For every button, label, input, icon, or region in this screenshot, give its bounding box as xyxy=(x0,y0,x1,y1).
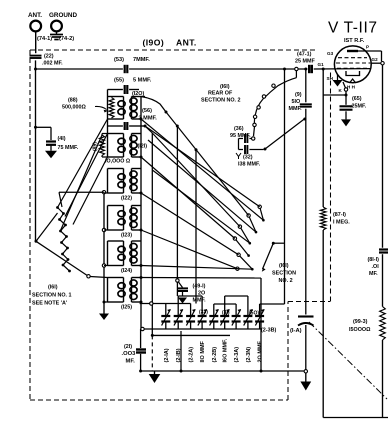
svg-text:G2: G2 xyxy=(372,57,379,62)
svg-text:G3: G3 xyxy=(327,51,334,56)
svg-text:.OI: .OI xyxy=(372,264,380,270)
svg-text:(2-IA): (2-IA) xyxy=(164,348,170,362)
svg-text:25 MMF: 25 MMF xyxy=(295,59,315,65)
svg-text:(I24): (I24) xyxy=(121,268,132,274)
svg-text:MMF.: MMF. xyxy=(193,298,207,304)
svg-text:IO,OOO Ω: IO,OOO Ω xyxy=(105,159,131,165)
svg-text:REAR OF: REAR OF xyxy=(208,91,233,97)
svg-text:95 MMF.: 95 MMF. xyxy=(230,133,251,139)
svg-text:I38 MMF.: I38 MMF. xyxy=(238,162,261,168)
svg-text:ANT.: ANT. xyxy=(28,12,42,19)
svg-text:(2-2A): (2-2A) xyxy=(189,347,195,363)
svg-text:(2-IB): (2-IB) xyxy=(176,348,182,362)
svg-text:SEE NOTE 'A': SEE NOTE 'A' xyxy=(32,301,67,307)
svg-text:(2-3A): (2-3A) xyxy=(234,347,240,363)
svg-text:(8I-I): (8I-I) xyxy=(368,257,380,263)
svg-text:5IO: 5IO xyxy=(292,99,301,105)
svg-text:500,000Ω: 500,000Ω xyxy=(62,105,86,111)
svg-text:IST R.F.: IST R.F. xyxy=(344,38,365,44)
svg-text:(65): (65) xyxy=(352,96,362,102)
svg-text:7MMF.: 7MMF. xyxy=(133,57,150,63)
svg-text:V T-II7: V T-II7 xyxy=(328,20,378,37)
svg-text:.25MF.: .25MF. xyxy=(350,104,367,110)
svg-text:.OO3: .OO3 xyxy=(122,351,137,357)
svg-text:SECTION NO. 2: SECTION NO. 2 xyxy=(201,98,241,104)
svg-text:2O: 2O xyxy=(198,291,205,297)
svg-text:(4I): (4I) xyxy=(58,136,66,142)
svg-text:SH: SH xyxy=(327,76,334,81)
svg-text:(49-I): (49-I) xyxy=(193,284,206,290)
svg-text:(47-1): (47-1) xyxy=(297,52,312,58)
svg-text:ANT.: ANT. xyxy=(176,38,197,48)
svg-text:5 MMF.: 5 MMF. xyxy=(133,78,152,84)
svg-text:(74-2): (74-2) xyxy=(59,36,74,42)
svg-text:(53): (53) xyxy=(114,57,124,63)
svg-text:P: P xyxy=(366,45,369,50)
svg-text:I MEG.: I MEG. xyxy=(333,220,350,226)
svg-text:IIO MMF: IIO MMF xyxy=(200,340,206,362)
svg-text:(3I): (3I) xyxy=(222,310,230,316)
svg-text:(2I): (2I) xyxy=(124,344,132,350)
svg-text:SECTION NO. 1: SECTION NO. 1 xyxy=(32,293,72,299)
svg-text:(I6I): (I6I) xyxy=(48,285,58,291)
svg-text:GROUND: GROUND xyxy=(49,12,77,19)
svg-text:I6O MMF.: I6O MMF. xyxy=(223,338,229,362)
svg-text:(56): (56) xyxy=(142,108,152,114)
svg-text:(I2I): (I2I) xyxy=(138,143,148,149)
svg-text:(I6I): (I6I) xyxy=(220,84,230,90)
svg-text:(2-3B): (2-3B) xyxy=(261,328,276,334)
svg-text:MF.: MF. xyxy=(126,359,136,365)
svg-text:(22): (22) xyxy=(44,54,54,60)
svg-text:H H: H H xyxy=(347,85,356,90)
svg-text:MF.: MF. xyxy=(369,271,378,277)
svg-text:MMF.: MMF. xyxy=(289,106,303,112)
svg-text:(2-2B): (2-2B) xyxy=(212,347,218,363)
svg-text:(74-1): (74-1) xyxy=(37,36,52,42)
svg-text:(33): (33) xyxy=(199,310,208,316)
svg-text:(I25): (I25) xyxy=(121,304,132,310)
svg-text:(I23): (I23) xyxy=(121,232,132,238)
svg-text:(I-A): (I-A) xyxy=(290,328,302,334)
svg-text:(88): (88) xyxy=(68,98,78,104)
svg-text:(55): (55) xyxy=(114,78,124,84)
svg-text:2O MMF: 2O MMF xyxy=(258,340,264,362)
svg-text:(9): (9) xyxy=(295,92,302,98)
svg-text:75 MMF.: 75 MMF. xyxy=(58,145,79,151)
svg-text:(I22): (I22) xyxy=(121,195,132,201)
svg-text:.002 MF.: .002 MF. xyxy=(42,61,63,67)
svg-text:(36): (36) xyxy=(234,126,244,132)
svg-text:(2-3N): (2-3N) xyxy=(246,347,252,363)
svg-text:(87-I): (87-I) xyxy=(333,212,346,218)
svg-text:(I9O): (I9O) xyxy=(143,38,165,48)
svg-text:G1: G1 xyxy=(318,62,325,67)
svg-text:(99-3): (99-3) xyxy=(353,319,368,325)
svg-text:NO. 2: NO. 2 xyxy=(279,278,293,284)
svg-text:I5OOOΩ: I5OOOΩ xyxy=(349,327,371,333)
svg-text:(32): (32) xyxy=(243,155,253,161)
svg-text:(5O): (5O) xyxy=(249,311,259,317)
